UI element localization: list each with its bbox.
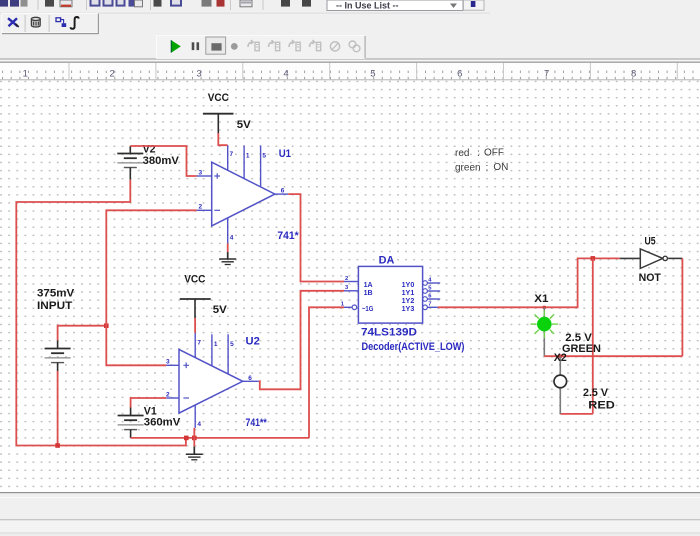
- wire U1 output to decoder 1A: [288, 194, 344, 281]
- svg-text:7: 7: [230, 151, 234, 158]
- power VCC (U1 supply rail): [203, 92, 234, 133]
- svg-text:NOT: NOT: [639, 272, 662, 284]
- svg-text:2: 2: [166, 391, 170, 398]
- svg-text:8: 8: [631, 68, 636, 79]
- svg-text:7: 7: [197, 339, 201, 346]
- junction ground bus / U2 pin 4 / ground: [192, 436, 197, 441]
- label 5V (VCC value): [237, 119, 252, 131]
- svg-text:375mV: 375mV: [37, 287, 75, 299]
- junction ground bus / left rail: [184, 436, 189, 441]
- label 2.5 V (X1 rating): [565, 332, 592, 344]
- svg-text:1: 1: [246, 153, 250, 160]
- wire V1 top to U2 pin 2: [131, 398, 167, 408]
- battery V3 375mV input source: [45, 341, 71, 372]
- svg-text:V1: V1: [144, 405, 157, 417]
- decoder U3 74LS139D: [341, 266, 440, 323]
- junction input rail / 375mV: [104, 323, 109, 328]
- junction 1Y3 wire / X1: [543, 306, 546, 309]
- svg-text:5: 5: [370, 68, 375, 79]
- power VCC (U2 supply rail): [180, 273, 211, 318]
- label X1: [534, 293, 548, 305]
- battery V2 380mV: [117, 144, 179, 180]
- label 2.5 V (X2 rating): [583, 387, 609, 399]
- svg-text:380mV: 380mV: [143, 155, 180, 167]
- svg-text:1Y3: 1Y3: [402, 306, 415, 313]
- junction NOT input / X2 drop: [591, 256, 596, 261]
- svg-text:1: 1: [214, 341, 218, 348]
- svg-text::: :: [486, 162, 489, 173]
- svg-text:2: 2: [199, 204, 203, 211]
- svg-text:6: 6: [457, 68, 462, 79]
- svg-text:2.5 V: 2.5 V: [583, 387, 609, 399]
- svg-text:3: 3: [196, 68, 201, 79]
- svg-text:U1: U1: [279, 148, 291, 160]
- label U5: [645, 236, 656, 248]
- svg-text:5V: 5V: [237, 119, 252, 131]
- label U1: [279, 148, 291, 160]
- svg-text:360mV: 360mV: [144, 417, 181, 429]
- wire 375mV top to input rail: [58, 326, 107, 341]
- svg-text::: :: [477, 148, 480, 159]
- wire VCC to U2 pin 7: [194, 318, 196, 333]
- svg-text:~1G: ~1G: [362, 306, 374, 313]
- probe X1 green lamp: [531, 307, 559, 356]
- svg-text:7: 7: [544, 68, 549, 79]
- label RED: [588, 399, 615, 411]
- wire input rail U1 pin 2 to U2 pin 3: [106, 210, 196, 365]
- junction NOT output wire / X2 top: [559, 355, 562, 358]
- svg-text:VCC: VCC: [208, 92, 229, 104]
- svg-text:RED: RED: [588, 399, 615, 411]
- svg-text:5: 5: [230, 341, 234, 348]
- label GREEN: [562, 343, 601, 355]
- label 741* (U1 model): [277, 230, 299, 242]
- svg-text:4: 4: [197, 421, 201, 428]
- svg-text:DA: DA: [379, 254, 395, 266]
- svg-text:1B: 1B: [364, 290, 373, 297]
- svg-text:U5: U5: [645, 236, 656, 248]
- wire VCC to U1 pin 7: [218, 133, 227, 145]
- wire U2 output to decoder 1B: [259, 291, 344, 390]
- ground (U1): [219, 252, 236, 264]
- svg-text:5V: 5V: [213, 304, 228, 316]
- svg-text:OFF: OFF: [484, 148, 504, 159]
- wire NOT output loop to X1/X2: [681, 258, 683, 356]
- svg-text:741**: 741**: [246, 417, 268, 429]
- svg-text:VCC: VCC: [184, 273, 205, 285]
- note red OFF / green ON: [455, 148, 508, 174]
- label 5V (U2 VCC value): [213, 304, 228, 316]
- op-amp U1 741: [197, 145, 289, 243]
- wire NOT input node down to X2: [592, 258, 594, 414]
- wire ground bus (V1 bottom to 1G riser): [131, 437, 309, 439]
- svg-text:Decoder(ACTIVE_LOW): Decoder(ACTIVE_LOW): [362, 341, 465, 353]
- wire V2 top to U1 pin 3: [130, 146, 196, 176]
- ground (U2 / bus): [186, 438, 203, 460]
- probe X2 red lamp (off): [554, 356, 567, 414]
- svg-text:1: 1: [23, 68, 28, 79]
- label U2: [246, 336, 260, 348]
- wire U2 pin 4 to bus: [193, 428, 195, 438]
- inverter U5 NOT gate: [620, 249, 683, 269]
- svg-text:1Y0: 1Y0: [402, 282, 415, 289]
- label 741** (U2 model): [246, 417, 268, 429]
- svg-text:X1: X1: [534, 293, 548, 305]
- op-amp U2 741: [166, 333, 259, 428]
- svg-text:U2: U2: [246, 336, 260, 348]
- label 375mV INPUT: [37, 287, 75, 312]
- svg-text:3: 3: [199, 169, 203, 176]
- wire ground bus riser to decoder ~1G: [309, 307, 344, 438]
- junction ground bus / 375mV: [55, 443, 60, 448]
- wire 375mV bottom to ground bus: [57, 371, 59, 446]
- svg-text:2: 2: [345, 276, 348, 282]
- label Decoder(ACTIVE_LOW): [362, 341, 465, 353]
- wire X1 bottom to NOT output node: [544, 355, 682, 357]
- svg-text:6: 6: [281, 187, 285, 194]
- svg-text:ON: ON: [493, 162, 508, 173]
- svg-text:5: 5: [262, 153, 266, 160]
- svg-text:1A: 1A: [364, 282, 373, 289]
- svg-text:INPUT: INPUT: [37, 300, 73, 312]
- svg-text:74LS139D: 74LS139D: [361, 327, 417, 339]
- wire X2 bottom to NOT input node: [560, 413, 593, 415]
- wire V2 bottom to left rail and ground bus: [16, 180, 186, 446]
- wire U1 pin 4 to ground: [227, 243, 229, 252]
- label X2: [554, 352, 567, 364]
- svg-text:4: 4: [230, 235, 234, 242]
- svg-text:3: 3: [166, 359, 170, 366]
- label NOT: [639, 272, 662, 284]
- svg-text:1Y2: 1Y2: [402, 298, 415, 305]
- svg-text:741*: 741*: [277, 230, 299, 242]
- svg-text:7: 7: [428, 302, 431, 308]
- svg-text:green: green: [455, 162, 481, 173]
- svg-text:4: 4: [283, 68, 288, 79]
- svg-text:GREEN: GREEN: [562, 343, 601, 355]
- svg-text:2: 2: [110, 68, 115, 79]
- svg-text:1Y1: 1Y1: [402, 290, 415, 297]
- label DA (decoder refdes): [379, 254, 395, 266]
- svg-text:6: 6: [248, 375, 252, 382]
- label 74LS139D: [361, 327, 417, 339]
- svg-text:red: red: [455, 148, 469, 159]
- wire decoder 1Y3 to NOT input node: [438, 258, 620, 307]
- svg-text:-- In Use List --: -- In Use List --: [336, 1, 399, 11]
- battery V1 360mV: [118, 405, 181, 438]
